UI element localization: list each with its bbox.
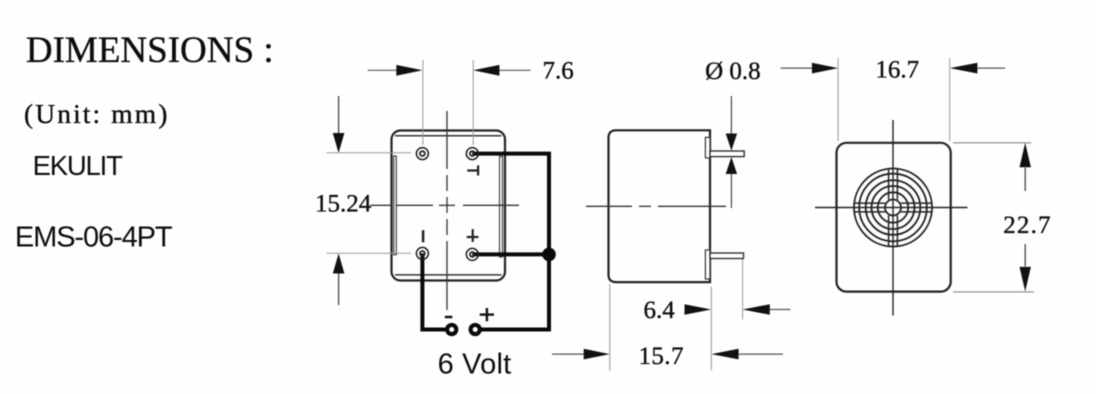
svg-text:7.6: 7.6: [543, 58, 574, 85]
svg-text:EKULIT: EKULIT: [33, 150, 123, 181]
svg-text:16.7: 16.7: [875, 57, 919, 84]
svg-text:Ø 0.8: Ø 0.8: [705, 58, 761, 85]
svg-text:6.4: 6.4: [644, 297, 676, 324]
svg-text:22.7: 22.7: [1003, 212, 1052, 239]
svg-text:DIMENSIONS :: DIMENSIONS :: [26, 30, 274, 71]
svg-text:(Unit: mm): (Unit: mm): [24, 98, 170, 129]
svg-text:15.24: 15.24: [315, 191, 372, 218]
svg-text:6 Volt: 6 Volt: [438, 348, 512, 380]
svg-text:EMS-06-4PT: EMS-06-4PT: [15, 221, 173, 253]
svg-text:15.7: 15.7: [639, 343, 684, 370]
